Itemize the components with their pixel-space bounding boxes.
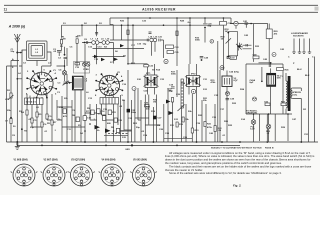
node circled m: [220, 66, 224, 70]
capacitor C36: [227, 56, 232, 58]
svg-text:V1 6K8 (B64): V1 6K8 (B64): [14, 158, 28, 161]
svg-text:Some of the earliest sets were: Some of the earliest sets were wired dif…: [169, 171, 282, 175]
wire jog links: [57, 107, 160, 131]
left rail wires: [7, 61, 20, 143]
svg-text:GRAM SW.: GRAM SW.: [246, 112, 258, 115]
svg-text:V2 6K7 (B64): V2 6K7 (B64): [44, 158, 58, 161]
svg-text:8µF: 8µF: [250, 82, 254, 84]
svg-text:GB1: GB1: [125, 149, 130, 151]
speaker plugs: [292, 52, 311, 54]
svg-text:G: G: [143, 180, 145, 182]
wire osc box leads: [57, 47, 82, 142]
V1 pin stubs: [27, 71, 56, 97]
capacitor C50: [265, 103, 270, 106]
svg-text:All voltages were measured und: All voltages were measured under no-sign…: [169, 151, 311, 155]
coils L9 L10: [102, 41, 106, 45]
oscillator coil box L5 L6: [73, 76, 84, 90]
dots cluster: [89, 123, 91, 125]
svg-text:SUBJECT TO ALTERATION WITHOUT: SUBJECT TO ALTERATION WITHOUT NOTICE: [211, 146, 262, 149]
svg-text:A 1096 (a): A 1096 (a): [8, 25, 26, 29]
HT bus y142: [7, 141, 319, 143]
svg-text:lines (1,000 ohms-per-volt). W: lines (1,000 ohms-per-volt). Where no va…: [165, 154, 315, 158]
capacitor on x96.6: [95, 33, 98, 34]
svg-text:15p: 15p: [143, 44, 147, 46]
component cluster left-bottom: [26, 110, 28, 115]
capacitor C29: [203, 24, 207, 25]
potentiometer R2: [10, 93, 12, 98]
svg-text:50p: 50p: [136, 127, 140, 129]
svg-text:BLK: BLK: [305, 75, 310, 77]
chassis bus y145.4: [17, 144, 240, 146]
wire aerial link2: [21, 52, 23, 54]
bus wire left: [62, 24, 224, 26]
V1 electrodes: [49, 79, 52, 82]
svg-text:470p: 470p: [234, 71, 240, 74]
top bus wire: [110, 17, 231, 19]
wire center risers: [57, 18, 227, 142]
wire left risers: [17, 66, 52, 142]
resistor R10: [176, 122, 178, 127]
capacitor C19: [147, 39, 148, 42]
trimmers C11a C11b: [82, 62, 86, 66]
IFT2 transformer: [187, 76, 200, 87]
resistor R23: [214, 126, 216, 132]
capacitor C23: [166, 45, 174, 48]
svg-text:BLU: BLU: [297, 69, 302, 71]
V2 base box: [100, 98, 119, 105]
svg-text:M: M: [221, 68, 223, 70]
svg-text:G: G: [111, 180, 113, 182]
capacitor C10: [75, 63, 80, 65]
wire aerial to loop: [17, 50, 22, 53]
capacitor on drop x128: [127, 30, 129, 35]
svg-text:500k: 500k: [195, 40, 201, 42]
T1 leads: [286, 57, 315, 143]
valve V3: [222, 76, 232, 87]
wire IFT2 leads: [189, 64, 197, 95]
header top rule: [4, 4, 318, 6]
svg-text:470k: 470k: [211, 81, 217, 84]
page corner mark: [315, 7, 319, 11]
V2 pin stubs: [97, 75, 123, 99]
svg-text:IFT1: IFT1: [146, 73, 151, 75]
V1 pin dots: [55, 77, 57, 79]
svg-text:470k: 470k: [207, 126, 213, 129]
capacitor C26: [145, 105, 150, 107]
wire V4 leads: [262, 67, 271, 114]
V1 base box: [25, 98, 44, 105]
svg-text:G: G: [23, 180, 25, 182]
IFT1 transformer: [145, 75, 157, 88]
valve socket V2: [41, 158, 68, 186]
svg-text:1M: 1M: [225, 31, 228, 33]
wire c46 link: [259, 63, 271, 67]
svg-text:A1096 RECEIVER: A1096 RECEIVER: [142, 8, 176, 12]
coils L7 L8: [92, 41, 96, 45]
resistor R6: [76, 39, 78, 44]
switch wedges S5: [95, 125, 101, 129]
node dots on top bus: [127, 17, 129, 19]
switch wedge S6: [114, 58, 119, 62]
svg-text:11: 11: [4, 8, 8, 12]
capacitor C38: [226, 98, 230, 99]
wire r6 down: [77, 43, 97, 67]
wire r20 down: [268, 24, 270, 68]
svg-text:V3 6Q7 (B64): V3 6Q7 (B64): [71, 158, 85, 161]
dial lamp circle: [234, 21, 238, 25]
capacitor C27 black: [153, 116, 156, 120]
wire v1 top links: [19, 66, 51, 72]
switch wedges S11: [169, 111, 174, 115]
svg-text:50p: 50p: [208, 26, 212, 28]
node circled vol: [210, 40, 214, 44]
wire aerial down: [16, 52, 18, 142]
node circled n: [226, 92, 230, 96]
capacitor C20: [114, 118, 117, 122]
capacitor C49: [253, 56, 259, 59]
svg-text:150p: 150p: [168, 91, 174, 93]
component cluster mid bottom 1: [63, 109, 66, 114]
trimmer shield box: [74, 62, 90, 74]
wire switch drops: [122, 25, 134, 64]
resistor R12: [182, 117, 184, 122]
capacitor C46: [277, 68, 284, 71]
svg-text:1M: 1M: [157, 125, 160, 127]
node circled j: [132, 87, 136, 91]
wire corner: [109, 18, 111, 25]
svg-text:V4 6V6 (B64): V4 6V6 (B64): [102, 158, 116, 161]
valve socket V1: [11, 158, 38, 186]
wire bottom link: [164, 138, 193, 140]
svg-text:G: G: [53, 180, 55, 182]
T1 primary winding: [286, 81, 287, 108]
V2 electrodes: [116, 81, 119, 84]
capacitor C25b black: [127, 109, 130, 113]
coils L14 L15: [150, 38, 153, 41]
trimmer C3: [63, 81, 70, 86]
svg-text:The black contacts and their n: The black contacts and their names are s…: [169, 164, 312, 168]
resistor R21: [204, 122, 206, 127]
svg-text:6.2V: 6.2V: [250, 129, 255, 131]
node circled wave2: [253, 97, 257, 101]
valve V1 envelope: [30, 72, 53, 95]
svg-text:COIL: COIL: [292, 94, 298, 96]
wire V3 leads: [226, 71, 228, 93]
wire y42 row: [82, 43, 114, 64]
svg-text:1M: 1M: [221, 39, 224, 41]
resistor R27: [281, 103, 286, 106]
capacitor C28: [200, 57, 204, 58]
valve socket V4: [99, 158, 126, 186]
wire l14 drop: [152, 40, 164, 58]
capacitor on drop x150: [149, 32, 152, 33]
wire band switch row: [93, 25, 149, 57]
svg-text:VOL: VOL: [5, 99, 10, 101]
capacitor C41: [245, 23, 249, 28]
capacitor C18: [171, 87, 175, 88]
V1 base links: [30, 96, 42, 99]
capacitor C32: [220, 22, 227, 26]
capacitor C8: [86, 41, 87, 44]
svg-text:1M: 1M: [153, 102, 156, 104]
wire speaker stems: [294, 39, 310, 53]
switch wafer ticks: [108, 133, 128, 135]
right section wires: [246, 24, 309, 142]
capacitor C2: [57, 44, 62, 56]
svg-text:the medium wave, long wave, an: the medium wave, long wave, and gramopho…: [165, 161, 282, 165]
resistor R20: [266, 29, 272, 39]
node circled k: [191, 89, 195, 93]
valve socket V5: [130, 158, 157, 186]
svg-text:500k: 500k: [171, 74, 177, 76]
capacitor C22: [144, 65, 149, 67]
pilot lamp PL1: [251, 120, 256, 125]
svg-text:500p: 500p: [131, 112, 137, 114]
node circled h: [164, 59, 168, 63]
wire IFT1 leads: [128, 64, 155, 95]
resistor on drop x177: [176, 31, 178, 36]
valve socket V3: [68, 158, 95, 186]
output transformer T1 core: [288, 76, 291, 111]
svg-text:2.2M: 2.2M: [61, 38, 66, 40]
resistor R1: [60, 40, 62, 45]
frame aerial L1 L2 loop: [27, 41, 48, 61]
capacitor C2: [64, 57, 68, 58]
node aerial junction: [16, 52, 18, 54]
resistor R13: [191, 128, 193, 133]
node dots on buses: [16, 141, 18, 143]
svg-text:drawn in the dust cover positi: drawn in the dust cover position and the…: [165, 158, 311, 162]
svg-text:SOCKETS: SOCKETS: [293, 36, 304, 38]
pilot lamp PL2: [266, 124, 271, 129]
wire right top: [230, 18, 268, 29]
tuning capacitor C4: [62, 71, 66, 75]
wire loop leads: [22, 50, 51, 66]
wire link under: [104, 134, 128, 136]
svg-text:G: G: [81, 180, 83, 182]
valve V4: [267, 74, 276, 87]
volume control R19: [228, 32, 237, 56]
svg-text:3Ω: 3Ω: [303, 109, 306, 111]
svg-text:that are the nearer to V1 hold: that are the nearer to V1 holder.: [165, 168, 203, 172]
svg-text:50p: 50p: [11, 51, 15, 53]
aerial A1: [14, 34, 20, 52]
node circled f: [272, 53, 276, 57]
capacitor C21: [116, 128, 119, 132]
volume pot track: [181, 79, 183, 108]
wire drops left bus: [62, 25, 97, 38]
svg-text:PAGE B: PAGE B: [265, 146, 274, 149]
header bottom rule: [4, 11, 318, 13]
capacitor C25: [167, 51, 174, 54]
capacitor C21b: [159, 39, 164, 42]
ground chassis: [16, 142, 18, 147]
svg-text:Fig. 2.: Fig. 2.: [233, 183, 242, 187]
svg-text:V5 6X5 (B64): V5 6X5 (B64): [133, 158, 147, 161]
svg-text:IFT2: IFT2: [191, 74, 196, 76]
resistor R18b: [171, 98, 173, 103]
capacitor C7: [10, 119, 12, 124]
T1 secondary winding: [291, 88, 292, 98]
valve V2 envelope: [99, 75, 119, 95]
